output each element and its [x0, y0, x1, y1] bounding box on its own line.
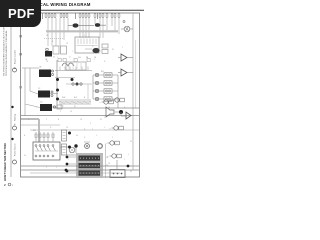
svg-text:2: 2 [57, 57, 58, 59]
svg-text:2E: 2E [106, 157, 109, 159]
svg-text:INJ: INJ [101, 71, 104, 73]
svg-text:2: 2 [84, 35, 85, 37]
svg-text:1F: 1F [80, 119, 83, 121]
svg-text:1: 1 [72, 51, 73, 53]
svg-text:S: S [14, 123, 16, 125]
svg-text:R: R [92, 46, 94, 48]
svg-text:W: W [130, 141, 132, 143]
svg-text:W: W [112, 49, 114, 51]
svg-text:o: o [111, 100, 112, 102]
svg-text:L: L [68, 159, 69, 161]
svg-text:1: 1 [122, 47, 123, 49]
svg-text:Starting: Starting [14, 114, 17, 121]
svg-text:1F: 1F [66, 43, 69, 45]
svg-text:W: W [100, 119, 102, 121]
svg-text:2: 2 [112, 137, 113, 139]
svg-text:2: 2 [90, 123, 91, 125]
svg-text:2E: 2E [46, 61, 49, 63]
svg-text:1F: 1F [70, 111, 73, 113]
svg-text:1F: 1F [66, 127, 69, 129]
svg-text:IG: IG [76, 135, 78, 137]
svg-text:L: L [56, 167, 57, 169]
svg-text:4: 4 [80, 57, 81, 59]
svg-text:L: L [104, 117, 105, 119]
svg-text:HOW TO READ THIS SECTION: HOW TO READ THIS SECTION [3, 143, 7, 181]
svg-text:B: B [58, 119, 60, 121]
svg-text:L: L [86, 57, 87, 59]
svg-text:2: 2 [60, 111, 61, 113]
svg-text:2: 2 [12, 185, 14, 187]
svg-text:L: L [128, 154, 129, 156]
svg-text:B: B [84, 97, 86, 99]
svg-text:2: 2 [46, 119, 47, 121]
svg-text:o: o [100, 102, 101, 104]
svg-text:2E: 2E [46, 35, 49, 37]
svg-text:FROM THE ACTUAL WIRING DIAGRAM: FROM THE ACTUAL WIRING DIAGRAM OF THIS M… [5, 30, 8, 76]
svg-text:1F: 1F [108, 163, 111, 165]
svg-text:B: B [14, 67, 16, 69]
svg-text:Power Source: Power Source [15, 143, 17, 156]
svg-text:1: 1 [96, 135, 97, 137]
svg-text:W-B: W-B [62, 97, 66, 99]
svg-text:R: R [50, 127, 52, 129]
svg-text:IG: IG [24, 155, 26, 157]
svg-text:2: 2 [92, 129, 93, 131]
svg-text:L: L [104, 127, 105, 129]
svg-text:R: R [104, 61, 106, 63]
svg-text:B: B [24, 135, 26, 137]
svg-text:THE SYSTEM SHOWN HERE IS AN EX: THE SYSTEM SHOWN HERE IS AN EXAMPLE ONLY… [3, 21, 6, 76]
svg-text:1B: 1B [39, 67, 42, 69]
svg-text:1: 1 [94, 59, 95, 61]
svg-text:R: R [84, 137, 86, 139]
svg-text:B-R: B-R [74, 97, 78, 99]
svg-text:3C: 3C [53, 57, 56, 59]
svg-text:2: 2 [100, 51, 101, 53]
svg-text:B: B [52, 41, 54, 43]
svg-text:W: W [130, 171, 132, 173]
svg-text:o: o [110, 128, 111, 130]
svg-text:11: 11 [69, 57, 71, 59]
svg-text:1D: 1D [40, 102, 43, 104]
svg-text:1C: 1C [38, 88, 41, 90]
svg-text:1: 1 [46, 167, 47, 169]
svg-text:Engine Control: Engine Control [14, 50, 17, 64]
svg-text:2: 2 [4, 183, 6, 187]
svg-text:1: 1 [124, 159, 125, 161]
svg-text:1: 1 [36, 107, 37, 109]
